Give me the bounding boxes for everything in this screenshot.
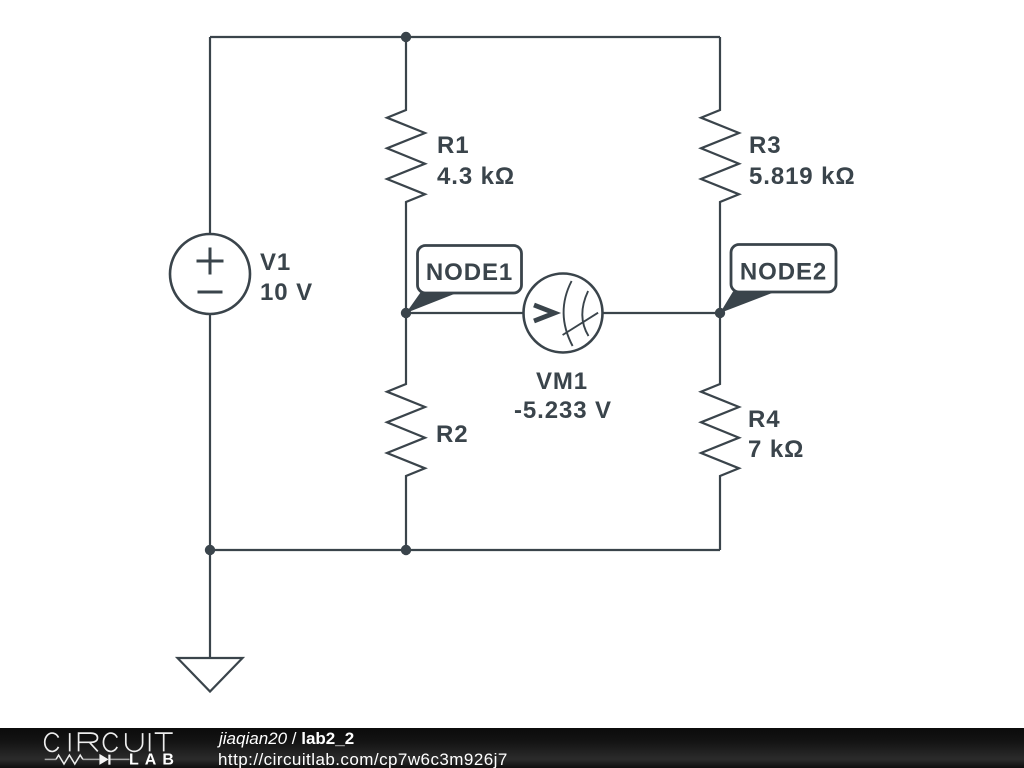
node bottom-left junction: [205, 545, 215, 555]
wire V1 bottom lead: [209, 314, 211, 550]
voltmeter VM1: [524, 274, 603, 353]
VM1 scale arc inner: [582, 291, 588, 336]
footer bar: [0, 728, 1024, 768]
logo letter I: [149, 733, 151, 751]
wire V1 top lead: [209, 37, 211, 234]
svg-text:10 V: 10 V: [260, 279, 313, 306]
wire bottom horizontal: [210, 549, 720, 551]
svg-text:R4: R4: [748, 406, 780, 433]
V1 body circle: [170, 234, 250, 314]
resistor R2: [387, 313, 425, 550]
V1 plus sign: [197, 248, 224, 275]
svg-text:4.3 kΩ: 4.3 kΩ: [437, 163, 515, 190]
footer url: [218, 750, 508, 768]
voltage source V1: [170, 234, 250, 314]
logo wire left: [45, 758, 56, 760]
wire ground stem: [209, 550, 211, 658]
node NODE1 junction: [401, 308, 411, 318]
NODE2 flag pointer: [720, 292, 776, 314]
logo resistor zigzag: [56, 755, 83, 764]
resistor R1: [387, 37, 425, 313]
CircuitLab logo: [40, 728, 185, 768]
logo letter C: [45, 733, 59, 751]
footer user / title: [219, 729, 354, 749]
node flag NODE2: [720, 245, 836, 314]
node bottom-mid junction: [401, 545, 411, 555]
svg-text:V1: V1: [260, 249, 291, 276]
svg-text:7 kΩ: 7 kΩ: [748, 436, 804, 463]
NODE2 flag box: [731, 245, 836, 293]
VM1 body circle: [524, 274, 603, 353]
wire middle right (voltmeter to NODE2): [603, 312, 720, 314]
wire top horizontal: [210, 36, 720, 38]
svg-text:NODE1: NODE1: [426, 259, 513, 286]
VM1 chevron mark: [534, 305, 555, 321]
resistor R3: [701, 37, 739, 313]
VM1 needle: [563, 313, 599, 335]
svg-text:-5.233 V: -5.233 V: [514, 397, 612, 424]
V1 minus sign: [198, 291, 223, 294]
resistor R4: [701, 313, 739, 550]
logo letter T: [155, 733, 173, 751]
svg-text:R2: R2: [436, 421, 468, 448]
logo letter I: [69, 733, 71, 751]
svg-text:R1: R1: [437, 132, 469, 159]
logo wire middle: [83, 758, 100, 760]
svg-text:LAB: LAB: [129, 752, 180, 768]
logo letter U: [126, 733, 143, 751]
VM1 scale arc outer: [564, 281, 573, 346]
node NODE2 junction: [715, 308, 725, 318]
svg-text:R3: R3: [749, 132, 781, 159]
logo letter R: [79, 733, 98, 751]
logo wire right: [110, 758, 129, 760]
wire middle left (NODE1 to voltmeter): [406, 312, 523, 314]
NODE1 flag pointer: [406, 293, 458, 314]
NODE1 flag box: [418, 246, 522, 294]
svg-text:NODE2: NODE2: [740, 259, 827, 286]
node flag NODE1: [406, 246, 522, 314]
svg-text:5.819 kΩ: 5.819 kΩ: [749, 163, 856, 190]
node top junction: [401, 32, 411, 42]
ground: [178, 658, 243, 692]
logo diode cathode bar: [108, 755, 110, 765]
logo diode triangle: [99, 754, 108, 765]
svg-text:VM1: VM1: [536, 368, 588, 395]
logo letter C: [103, 733, 117, 751]
